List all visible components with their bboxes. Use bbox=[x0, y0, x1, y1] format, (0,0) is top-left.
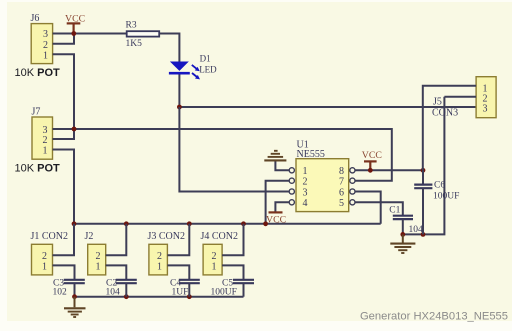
svg-text:J4 CON2: J4 CON2 bbox=[201, 231, 239, 242]
wire U1 pin5 to C1 bbox=[355, 202, 403, 215]
svg-text:100UF: 100UF bbox=[433, 192, 459, 202]
connector J7 bbox=[32, 107, 53, 160]
connector J4 bbox=[201, 231, 239, 275]
power VCC (U1 pin4) bbox=[266, 212, 286, 225]
junction bus J3 column bbox=[187, 221, 192, 226]
pin circles U1 left bbox=[289, 168, 294, 205]
svg-text:1K5: 1K5 bbox=[126, 39, 143, 49]
wire U1 pin4 to VCC bbox=[275, 202, 289, 212]
svg-text:1UF: 1UF bbox=[172, 287, 189, 297]
power VCC (J6) bbox=[65, 14, 85, 34]
wire J7 pin1 down to bus bbox=[53, 150, 75, 224]
junction bus J2 column bbox=[124, 221, 129, 226]
svg-text:104: 104 bbox=[106, 287, 121, 297]
wire J5 pin1 to pin8 row bbox=[423, 86, 476, 171]
junction J7 pin3 bbox=[72, 127, 77, 132]
svg-text:102: 102 bbox=[53, 287, 68, 297]
svg-text:100UF: 100UF bbox=[211, 287, 237, 297]
svg-text:D1: D1 bbox=[200, 54, 211, 64]
wire C5 bottom to gnd bus bbox=[243, 283, 245, 297]
junction C1/ground bbox=[400, 232, 405, 237]
svg-text:NE555: NE555 bbox=[297, 149, 325, 160]
svg-text:10K POT: 10K POT bbox=[15, 67, 61, 79]
junction gnd bus C4 bbox=[187, 294, 192, 299]
pin circles U1 right bbox=[350, 168, 355, 205]
wire J3 pin2 to bus bbox=[167, 224, 189, 255]
svg-text:4: 4 bbox=[303, 198, 308, 209]
capacitor C6 bbox=[414, 170, 459, 234]
svg-text:2: 2 bbox=[96, 251, 101, 262]
wire J6 pin1 down to J7 node bbox=[53, 54, 74, 129]
svg-text:J2: J2 bbox=[85, 231, 94, 242]
svg-text:C6: C6 bbox=[434, 180, 445, 190]
svg-text:1: 1 bbox=[42, 262, 47, 273]
LED D1 bbox=[169, 54, 217, 80]
svg-text:J1 CON2: J1 CON2 bbox=[31, 231, 69, 242]
svg-text:3: 3 bbox=[303, 187, 308, 198]
ground (U1 pin1) bbox=[264, 151, 286, 161]
connector J6 bbox=[31, 13, 53, 64]
capacitor C3 bbox=[53, 279, 85, 298]
wire ground node to J5 pin2 column bbox=[403, 97, 445, 235]
svg-text:J6: J6 bbox=[31, 13, 40, 24]
wire J7 pin2 bbox=[53, 129, 75, 139]
wire J4 pin1 to C5 bbox=[222, 265, 243, 279]
wire J5 pin2 stub bbox=[444, 96, 476, 98]
junction C6 bottom bbox=[421, 232, 426, 237]
wire C3 bottom to gnd bus bbox=[74, 283, 76, 297]
svg-text:1: 1 bbox=[303, 166, 308, 177]
svg-text:J3 CON2: J3 CON2 bbox=[148, 231, 186, 242]
svg-text:6: 6 bbox=[339, 187, 344, 198]
svg-text:2: 2 bbox=[212, 251, 217, 262]
svg-text:R3: R3 bbox=[126, 21, 137, 31]
svg-text:J7: J7 bbox=[32, 107, 41, 118]
wire U1 pin6 to bus bbox=[355, 192, 381, 224]
wire J3 pin1 to C4 bbox=[167, 265, 189, 279]
svg-text:8: 8 bbox=[339, 166, 344, 177]
power VCC (U1 pin8) bbox=[362, 150, 382, 170]
svg-text:1: 1 bbox=[43, 50, 48, 61]
wire J6 pin2 bbox=[53, 34, 74, 44]
wire J1 pin1 to C3 bbox=[53, 265, 75, 279]
capacitor C2 bbox=[106, 279, 137, 298]
ground (C3 / gnd bus) bbox=[64, 297, 86, 317]
svg-text:VCC: VCC bbox=[362, 150, 382, 161]
connector J2 bbox=[85, 231, 106, 275]
wire J6 pin3 to R3 bbox=[53, 33, 127, 35]
wire U1 pin1 to ground bbox=[275, 162, 289, 171]
svg-text:2: 2 bbox=[43, 40, 48, 51]
svg-text:Generator HX24B013_NE555: Generator HX24B013_NE555 bbox=[360, 311, 508, 323]
wire C1 bottom to ground node bbox=[402, 219, 404, 234]
connector J5 bbox=[432, 77, 496, 119]
wire C4 bottom to gnd bus bbox=[188, 283, 190, 297]
junction LED node bbox=[177, 105, 182, 110]
svg-text:CON3: CON3 bbox=[432, 107, 458, 118]
wire J4 pin2 to bus bbox=[222, 224, 243, 255]
wire U1 pin8 to C6 column bbox=[355, 169, 423, 171]
svg-text:LED: LED bbox=[199, 65, 217, 75]
svg-text:7: 7 bbox=[339, 177, 344, 188]
wire J2 pin2 to bus bbox=[106, 224, 127, 255]
svg-text:2: 2 bbox=[303, 177, 308, 188]
svg-text:3: 3 bbox=[483, 104, 488, 115]
wire LED node to J5 pin3 bbox=[179, 106, 476, 108]
svg-text:C1: C1 bbox=[389, 205, 400, 215]
junction bus U1 pin2 column bbox=[263, 221, 268, 226]
svg-text:2: 2 bbox=[42, 251, 47, 262]
resistor R3 bbox=[126, 21, 160, 49]
bus wire (pins 2/6 and pots/caps) bbox=[74, 223, 381, 225]
wire R3 to LED anode bbox=[159, 34, 179, 62]
junction bus J4 column bbox=[241, 221, 246, 226]
svg-text:3: 3 bbox=[43, 29, 48, 40]
wire J2 pin1 to C2 bbox=[106, 265, 127, 279]
connector J1 bbox=[31, 231, 69, 275]
junction VCC pin8 bbox=[368, 168, 373, 173]
svg-text:10K POT: 10K POT bbox=[15, 162, 61, 174]
svg-text:5: 5 bbox=[339, 198, 344, 209]
svg-text:2: 2 bbox=[43, 135, 48, 146]
junction pin8 row / C6 column bbox=[421, 168, 426, 173]
wire J7 pin3 to U1 pin7 bbox=[53, 129, 392, 181]
junction gnd bus C3 bbox=[72, 294, 77, 299]
svg-text:1: 1 bbox=[157, 262, 162, 273]
capacitor C5 bbox=[211, 279, 255, 298]
svg-text:1: 1 bbox=[212, 262, 217, 273]
svg-text:2: 2 bbox=[157, 251, 162, 262]
junction bus J7/J1 column bbox=[72, 221, 77, 226]
junction gnd bus C2 bbox=[124, 294, 129, 299]
op IC U1 NE555 bbox=[296, 140, 349, 212]
capacitor C1 bbox=[389, 205, 423, 235]
connector J3 bbox=[148, 231, 186, 275]
svg-text:1: 1 bbox=[96, 262, 101, 273]
svg-text:1: 1 bbox=[43, 146, 48, 157]
wire LED node down to U1 pin3 bbox=[179, 107, 289, 192]
svg-text:J5: J5 bbox=[433, 96, 442, 107]
wire U1 pin2 to bus bbox=[266, 181, 290, 224]
capacitor C4 bbox=[170, 279, 200, 298]
wire J1 pin2 to bus bbox=[53, 224, 75, 255]
ground (C1) bbox=[390, 234, 415, 253]
wire C2 bottom to gnd bus bbox=[125, 283, 127, 297]
ground bus wire bbox=[75, 296, 244, 298]
junction J6 pin3/VCC bbox=[71, 31, 76, 36]
wire LED cathode down bbox=[178, 75, 180, 108]
